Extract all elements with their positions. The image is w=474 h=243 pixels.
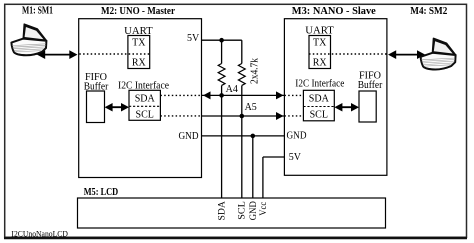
- svg-text:M3: NANO - Slave: M3: NANO - Slave: [292, 6, 377, 17]
- svg-text:M1: SM1: M1: SM1: [22, 5, 53, 16]
- svg-text:TX: TX: [313, 38, 327, 49]
- svg-text:A4: A4: [226, 84, 238, 95]
- svg-text:TX: TX: [132, 38, 146, 49]
- svg-text:GND: GND: [249, 201, 259, 220]
- svg-text:M4: SM2: M4: SM2: [410, 6, 447, 17]
- svg-text:SCL: SCL: [310, 109, 328, 120]
- svg-text:Buffer: Buffer: [358, 80, 383, 91]
- svg-text:SDA: SDA: [309, 93, 330, 104]
- svg-text:A5: A5: [245, 102, 257, 113]
- svg-text:UART: UART: [305, 26, 334, 37]
- svg-text:GND: GND: [179, 131, 199, 142]
- svg-text:SCL: SCL: [136, 109, 154, 120]
- svg-text:SDA: SDA: [217, 201, 227, 221]
- svg-text:5V: 5V: [187, 33, 200, 44]
- svg-text:RX: RX: [132, 58, 147, 69]
- svg-text:GND: GND: [287, 131, 307, 142]
- svg-text:Vcc: Vcc: [259, 202, 269, 216]
- svg-text:M2: UNO - Master: M2: UNO - Master: [101, 6, 176, 17]
- svg-text:SDA: SDA: [135, 93, 156, 104]
- svg-text:5V: 5V: [289, 152, 302, 163]
- svg-text:I2CUnoNanoLCD: I2CUnoNanoLCD: [11, 228, 68, 238]
- svg-text:RX: RX: [313, 58, 328, 69]
- svg-text:I2C Interface: I2C Interface: [295, 79, 345, 90]
- svg-text:2x4.7k: 2x4.7k: [250, 58, 261, 84]
- svg-text:SCL: SCL: [238, 201, 248, 220]
- svg-text:M5: LCD: M5: LCD: [84, 187, 119, 198]
